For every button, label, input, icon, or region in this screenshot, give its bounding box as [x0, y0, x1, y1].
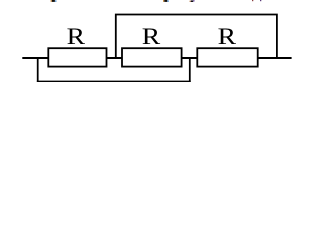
svg-text:R: R [218, 24, 237, 49]
wire: bottom bypass horizontal run [37, 80, 191, 82]
wire: bottom bypass right rise to node C [189, 58, 191, 82]
cropped text dot fragment 5 [260, 0, 261, 1]
cropped text dot fragment 4 [252, 0, 253, 1]
wire: top bypass from node B up, across, down to node D [116, 15, 277, 59]
cropped text descender fragment 2 [163, 0, 169, 2]
cropped text descender fragment 3 [190, 0, 195, 2]
wire: right lead out of node D [258, 57, 292, 59]
wire: between left and middle resistor (node B) [107, 57, 123, 59]
wire: bottom bypass left drop from node A [37, 58, 39, 82]
resistor R (left box) [48, 48, 106, 66]
resistor R (middle box) [122, 48, 182, 66]
wire: left lead into node A [22, 57, 48, 59]
cropped text descender fragment 1 [51, 0, 57, 2]
svg-text:R: R [67, 24, 86, 49]
resistor R (right box) [197, 48, 257, 66]
svg-text:R: R [142, 24, 161, 49]
wire: between middle and right resistor (node C) [182, 57, 198, 59]
